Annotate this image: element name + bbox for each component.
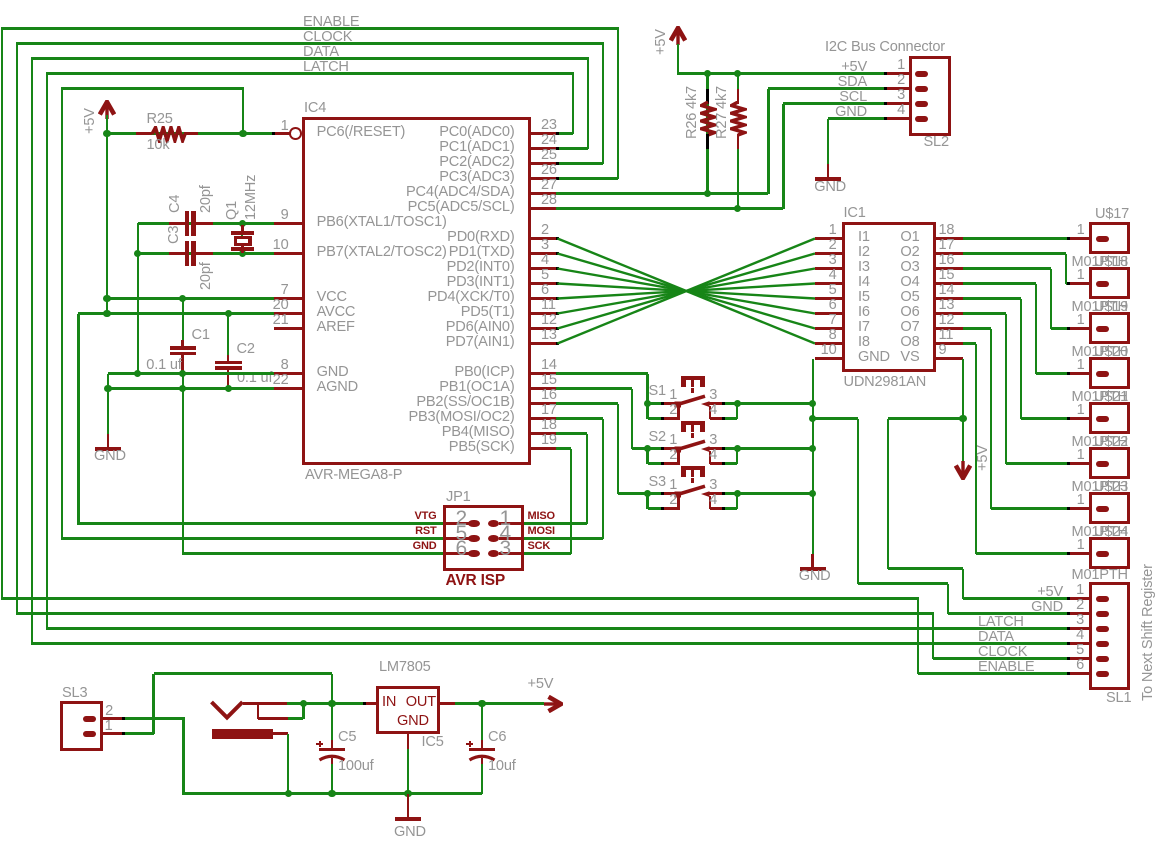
junction S3 left <box>644 490 651 497</box>
+5V supply symbol (pointing right) <box>543 695 563 713</box>
value M01PTH <box>1072 525 1128 540</box>
pin name O6 <box>660 305 920 320</box>
pin name AREF <box>317 320 355 335</box>
pin 4 stub (IC1 left, I4) <box>815 282 844 285</box>
pin number 1 <box>825 223 1085 238</box>
value 12MHz (rotated) <box>244 175 259 220</box>
pin name AVCC <box>317 305 356 320</box>
label U$24 (overlapping) <box>1094 525 1128 540</box>
pin 4 of S2 <box>709 451 712 464</box>
pin 1 of SL1 (+5V) <box>1068 597 1090 600</box>
junction S2 right <box>734 445 741 452</box>
pin 27 stub (IC4 right) <box>529 192 558 195</box>
label S2 <box>649 430 666 445</box>
pin name AGND <box>317 380 358 395</box>
label LATCH <box>303 60 349 75</box>
pin name VTG <box>177 511 437 522</box>
label ENABLE <box>978 660 1034 675</box>
pin name I1 <box>858 230 870 245</box>
wire SL3 pin1 to raw V+ <box>123 732 154 734</box>
pin name I2 <box>858 245 870 260</box>
junction R27 bottom / SCL <box>734 205 741 212</box>
wire O1 to pad 1 <box>963 237 1068 239</box>
pin number 6 <box>824 658 1084 673</box>
pin number 1 <box>417 388 677 403</box>
pin 26 stub (IC4 right) <box>529 177 558 180</box>
pin IN of IC5 <box>364 702 377 705</box>
connector U$23 (M01PTH) <box>1089 492 1131 525</box>
pin name SCK <box>528 541 551 552</box>
pin 28 stub (IC4 right) <box>529 207 558 210</box>
junction AVCC/+5V column <box>103 310 110 317</box>
pin 2 of JP1 (VTG) <box>446 522 469 525</box>
pin 23 stub (IC4 right) <box>529 132 558 135</box>
pin number 5 <box>207 523 467 544</box>
label U$22 (overlapping) <box>1094 435 1128 450</box>
junction AGND / C2 <box>225 385 232 392</box>
pin number 2 <box>824 598 1084 613</box>
pin 1 stub (IC1 left, I1) <box>815 237 844 240</box>
junction R26 top <box>704 70 711 77</box>
pin name I8 <box>858 335 870 350</box>
junction +5V arrow <box>959 415 966 422</box>
pin name O4 <box>660 275 920 290</box>
pin number 13 <box>541 328 557 343</box>
label GND <box>607 105 867 120</box>
junction GND row / XTAL column <box>134 370 141 377</box>
wire +5V segment to SL1 pin1 <box>963 597 1068 599</box>
connector U$19 (M01PTH) <box>1089 312 1131 345</box>
pin 8 stub (IC1 left, I8) <box>815 342 844 345</box>
pin 2 of SL2 (SDA) <box>887 87 912 90</box>
connector U$22 (M01PTH) <box>1089 447 1131 480</box>
voltage regulator IC5 body (LM7805) <box>376 686 441 735</box>
pin number 10 <box>577 343 837 358</box>
wire VCC row (pin 7) <box>107 297 275 299</box>
pin 15 stub (IC1 right, O4) <box>934 282 963 285</box>
pin number 14 <box>541 358 557 373</box>
value 10k <box>147 138 170 153</box>
ground symbol (IC4) <box>107 434 110 447</box>
pin name PD0(RXD) <box>255 230 515 245</box>
pin 9 stub (IC4 left) <box>274 222 303 225</box>
pin number 17 <box>541 403 557 418</box>
pin number 27 <box>541 178 557 193</box>
pin number 8 <box>29 358 289 373</box>
wire crossover fan PD0-PD7 to I1-I8 <box>556 236 817 347</box>
wire regulator GND down <box>407 749 409 794</box>
pin 24 stub (IC4 right) <box>529 147 558 150</box>
label To Next Shift Register (rotated) <box>1141 564 1156 701</box>
pin number 22 <box>29 373 289 388</box>
pin 6 of JP1 (GND) <box>446 552 469 555</box>
wire ENABLE bottom row <box>1 597 919 599</box>
junction jack tip/switch <box>300 700 307 707</box>
wire XTAL left column <box>137 223 139 375</box>
pin number 21 <box>29 313 289 328</box>
ground symbol (UDN2981) <box>811 554 814 567</box>
label R27 4k7 (rotated) <box>715 86 730 139</box>
pin 7 stub (IC4 left) <box>274 297 303 300</box>
wire GND net to JP1 pin6 <box>183 552 444 554</box>
pin number 3 <box>709 433 717 448</box>
wire LATCH bottom row <box>46 627 1068 629</box>
pin number 7 <box>29 283 289 298</box>
pin 14 stub (IC4 right) <box>529 372 558 375</box>
pin 20 stub (IC4 left) <box>274 312 303 315</box>
pin 1 bubble PC6(/RESET) <box>273 132 291 135</box>
pin number 8 <box>577 328 837 343</box>
wire O7 to pad 7 <box>963 327 991 329</box>
wire crystal column <box>241 224 243 254</box>
label C4 (rotated) <box>168 194 183 212</box>
pin number 18 <box>541 418 557 433</box>
pin 2 of SL1 (GND) <box>1068 612 1090 615</box>
pin name MISO <box>528 511 555 522</box>
pin number 2 <box>645 73 905 88</box>
pin number 11 <box>939 328 954 343</box>
junction rail/regulator GND <box>404 790 411 797</box>
junction V+ / C5 <box>328 700 335 707</box>
label GND <box>803 600 1063 615</box>
pin name PB6(XTAL1/TOSC1) <box>317 215 447 230</box>
pin name PD3(INT1) <box>255 275 515 290</box>
label U$17 <box>1095 207 1129 222</box>
capacitor C5 (polarized) <box>331 704 333 746</box>
label CLOCK <box>978 645 1027 660</box>
label IC4 <box>304 101 326 116</box>
pin number 9 <box>939 343 947 358</box>
pin number 1 <box>500 508 511 529</box>
resistor R26 <box>706 89 709 104</box>
wire CLOCK net (top bus + left vertical) <box>16 42 604 44</box>
pin 6 stub (IC4 right) <box>529 297 558 300</box>
pin name PB3(MOSI/OC2) <box>255 410 515 425</box>
pin 11 stub (IC1 right, O8) <box>934 342 963 345</box>
pin 5 of JP1 (RST) <box>446 537 469 540</box>
pin number 6 <box>577 298 837 313</box>
plus sign <box>316 743 322 745</box>
wire CLOCK bottom row <box>16 612 934 614</box>
connector U$21 (M01PTH) <box>1089 402 1131 435</box>
pin 1 of SL2 (+5V) <box>887 72 912 75</box>
pin number 12 <box>541 313 557 328</box>
pin 3 stub (IC4 right) <box>529 252 558 255</box>
pin 17 stub (IC1 right, O2) <box>934 252 963 255</box>
value 10uf <box>488 759 516 774</box>
label SL2 <box>924 135 949 150</box>
wire GND to SL1 pin2 <box>813 417 858 419</box>
pin 1 stub <box>1068 282 1090 285</box>
label DATA <box>303 45 339 60</box>
label C2 <box>237 342 255 357</box>
pin name I5 <box>858 290 870 305</box>
pin 7 stub (IC1 left, I7) <box>815 327 844 330</box>
pin 12 stub (IC1 right, O7) <box>934 327 963 330</box>
wire O2 to pad 2 <box>963 252 1066 254</box>
label S3 <box>649 475 666 490</box>
connector SL2 body <box>909 56 951 137</box>
pin number 5 <box>577 283 837 298</box>
junction crystal bottom <box>239 250 246 257</box>
wire SCK net (pin19 to JP1) <box>556 447 571 449</box>
wire +5V row to SL2 pin1 <box>678 72 887 74</box>
label SDA <box>607 75 867 90</box>
wire O4 to pad 4 <box>963 282 1036 284</box>
label C5 <box>338 730 356 745</box>
pin name GND <box>397 714 429 729</box>
connector SL1 body <box>1089 582 1131 690</box>
wire DATA net (top bus + left vertical) <box>31 57 589 59</box>
label +5V <box>607 60 867 75</box>
wire SDA net (pin27 to SL2) <box>556 192 768 194</box>
wire MISO net (pin18 to JP1) <box>556 432 587 434</box>
wire DATA bottom row <box>31 642 1068 644</box>
wire RESET net (inner loop to JP1 RST) <box>61 87 244 89</box>
pin name I4 <box>858 275 870 290</box>
pin 1 of JP1 (MISO) <box>499 522 522 525</box>
wire PB2 to S3 <box>556 402 618 404</box>
pin name PC2(ADC2) <box>255 155 515 170</box>
capacitor C1 <box>181 340 184 347</box>
pin number 1 <box>825 538 1085 553</box>
pin GND of IC5 <box>407 734 410 749</box>
pin 3 stub (IC1 left, I3) <box>815 267 844 270</box>
+5V supply symbol (left) <box>98 100 116 120</box>
wire O6 to pad 6 <box>963 312 1006 314</box>
pin name I3 <box>858 260 870 275</box>
pin 3 of S1 <box>709 402 724 405</box>
pin 4 of S3 <box>709 496 712 509</box>
pin 3 of SL2 (SCL) <box>887 102 912 105</box>
pin 18 stub (IC1 right, O1) <box>934 237 963 240</box>
wire PB0 to S1 <box>556 372 648 374</box>
value LM7805 <box>379 660 431 675</box>
value 0.1 uf <box>237 371 272 386</box>
capacitor C3 <box>169 252 186 255</box>
junction S1 right <box>734 400 741 407</box>
pin name PD5(T1) <box>255 305 515 320</box>
pin 2 of S1 <box>646 404 648 419</box>
pin name O8 <box>660 335 920 350</box>
switch S1 <box>681 376 705 380</box>
junction S2 left <box>644 445 651 452</box>
wire V+ row to regulator <box>287 702 364 704</box>
connector U$20 (M01PTH) <box>1089 357 1131 390</box>
value M01PTH <box>1072 390 1128 405</box>
wire UDN2981 GND column <box>812 359 814 554</box>
pin number 1 <box>577 223 837 238</box>
pin 9 stub (IC1 right, VS) <box>934 357 963 360</box>
resistor R25 <box>136 132 152 135</box>
label R25 <box>147 112 173 127</box>
pin 4 of JP1 (MOSI) <box>499 537 522 540</box>
value AVR-MEGA8-P <box>305 468 402 483</box>
wire R27 column <box>737 74 739 90</box>
pin number 3 <box>709 388 717 403</box>
pin name GND <box>317 365 349 380</box>
pin number 1 <box>0 719 113 734</box>
wire AVCC to JP1 VTG <box>77 314 79 525</box>
pin number 6 <box>541 283 549 298</box>
pin 10 stub (IC4 left) <box>274 252 303 255</box>
wire jack switch pin loop <box>288 717 303 719</box>
value AVR ISP <box>446 573 505 589</box>
wire C2 column (AVCC to AGND row) <box>227 314 229 362</box>
pin number 1 <box>825 313 1085 328</box>
pin number 2 <box>417 448 677 463</box>
label U$21 (overlapping) <box>1094 390 1128 405</box>
pin 11 stub (IC4 right) <box>529 312 558 315</box>
connector SL3 body <box>60 701 103 751</box>
connector U$17 (M01PTH) <box>1089 222 1131 255</box>
pin 4 stub (IC4 right) <box>529 267 558 270</box>
pin 1 of S2 <box>648 447 663 449</box>
pin number 4 <box>824 628 1084 643</box>
pin number 5 <box>541 268 549 283</box>
pin 3 of S2 <box>709 447 724 450</box>
pin number 11 <box>541 298 556 313</box>
junction rail/C5 <box>328 790 335 797</box>
label CLOCK <box>303 30 352 45</box>
pin 3 of SL1 (LATCH) <box>1068 627 1090 630</box>
wire SL3 pin2 to ground rail <box>123 717 185 719</box>
wire bottom ground rail <box>184 792 483 794</box>
pin name PD4(XCK/T0) <box>255 290 515 305</box>
pin 21 stub (IC4 left) <box>274 327 303 330</box>
junction OUT / C6 <box>478 700 485 707</box>
pin OUT of IC5 <box>439 702 456 705</box>
value UDN2981AN <box>844 375 927 390</box>
label +5V (rotated) <box>976 445 991 471</box>
wire O3 to pad 3 <box>963 267 1051 269</box>
pin name PB2(SS/OC1B) <box>255 395 515 410</box>
pin number 1 <box>825 358 1085 373</box>
+5V supply symbol (top middle) <box>669 26 687 46</box>
pin 25 stub (IC4 right) <box>529 162 558 165</box>
wire MOSI net (pin17 to JP1) <box>556 417 603 419</box>
value M01PTH <box>1072 255 1128 270</box>
pin 1 stub <box>1068 372 1090 375</box>
pin 4 of SL2 (GND) <box>887 117 912 120</box>
pin name PC1(ADC1) <box>255 140 515 155</box>
pin 8 stub (IC4 left) <box>274 372 303 375</box>
pin 1 stub <box>1068 552 1090 555</box>
pin 6 of SL1 (ENABLE) <box>1068 672 1090 675</box>
pin name VCC <box>317 290 347 305</box>
pin number 3 <box>541 238 549 253</box>
pin number 1 <box>645 58 905 73</box>
wire pin10 row (XTAL2) <box>138 252 275 254</box>
junction AGND / GND corner <box>104 385 111 392</box>
wire VS +5V net <box>962 359 964 420</box>
pin 18 stub (IC4 right) <box>529 432 558 435</box>
label ENABLE <box>303 15 359 30</box>
junction VCC/C1 <box>179 295 186 302</box>
pin number 14 <box>939 283 955 298</box>
wire GND segment to SL1 pin2 <box>948 612 1068 614</box>
wire O5 to pad 5 <box>963 297 1021 299</box>
junction at +5V/R25 <box>103 130 110 137</box>
pin number 20 <box>29 298 289 313</box>
pin number 1 <box>417 433 677 448</box>
junction AVCC/C2 <box>225 310 232 317</box>
pin name PD7(AIN1) <box>255 335 515 350</box>
pin number 25 <box>541 148 557 163</box>
wire SCL net (pin28 to SL2) <box>556 207 783 209</box>
label IC5 <box>422 735 444 750</box>
label +5V (rotated) <box>654 29 669 55</box>
capacitor C2 <box>227 355 230 361</box>
pin 2 of SL3 <box>103 717 123 720</box>
connector U$18 (M01PTH) <box>1089 267 1131 300</box>
pin name MOSI <box>528 526 555 537</box>
pin name PD6(AIN0) <box>255 320 515 335</box>
pin 3 of S3 <box>709 492 724 495</box>
pin 4 of S1 <box>709 406 712 419</box>
pin name GND <box>858 350 890 365</box>
pin number 4 <box>541 253 549 268</box>
wire OUT to +5V arrow <box>455 702 544 704</box>
label U$19 (overlapping) <box>1094 300 1128 315</box>
junction S3/GND <box>809 490 816 497</box>
pin 2 stub (IC1 left, I2) <box>815 252 844 255</box>
wire SL2 GND net <box>828 117 886 119</box>
wire S1 to GND column <box>737 402 812 404</box>
plus sign <box>466 743 472 745</box>
value 20pf (rotated) <box>199 262 214 290</box>
pin 4 of SL1 (DATA) <box>1068 642 1090 645</box>
pin number 17 <box>939 238 955 253</box>
label LATCH <box>978 615 1024 630</box>
wire C1 column (VCC to GND rows to JP1 GND) <box>182 299 184 347</box>
pin name O3 <box>660 260 920 275</box>
pin number 3 <box>824 613 1084 628</box>
pin name PC4(ADC4/SDA) <box>255 185 515 200</box>
pin 13 stub (IC1 right, O6) <box>934 312 963 315</box>
value M01PTH <box>1072 480 1128 495</box>
junction S1 left <box>644 400 651 407</box>
pin 5 stub (IC1 left, I5) <box>815 297 844 300</box>
pin 19 stub (IC4 right) <box>529 447 558 450</box>
pin number 1 <box>825 268 1085 283</box>
pin number 1 <box>824 583 1084 598</box>
pin name O5 <box>660 290 920 305</box>
pin number 24 <box>541 133 557 148</box>
connector U$24 (M01PTH) <box>1089 537 1131 570</box>
wire pin9 row (XTAL1) <box>138 222 275 224</box>
pin number 1 <box>825 493 1085 508</box>
wire S3 to GND column <box>737 492 812 494</box>
wire ENABLE net (top bus + left vertical) <box>1 27 619 29</box>
pin number 13 <box>939 298 955 313</box>
pin name I6 <box>858 305 870 320</box>
pin 12 stub (IC4 right) <box>529 327 558 330</box>
pin 2 of S2 <box>646 449 648 464</box>
junction GND row / C1 <box>179 370 186 377</box>
value 0.1 uf <box>146 358 181 373</box>
pin 1 of S3 <box>648 492 663 494</box>
pin number 26 <box>541 163 557 178</box>
+5V supply symbol (pointing down) <box>962 419 964 464</box>
pin 5 of SL1 (CLOCK) <box>1068 657 1090 660</box>
pin number 4 <box>709 493 717 508</box>
switch S3 <box>681 466 705 470</box>
label S1 <box>649 384 666 399</box>
junction R25 output / reset <box>239 130 246 137</box>
pin number 9 <box>29 208 289 223</box>
pin name PC6(/RESET) <box>317 125 406 140</box>
